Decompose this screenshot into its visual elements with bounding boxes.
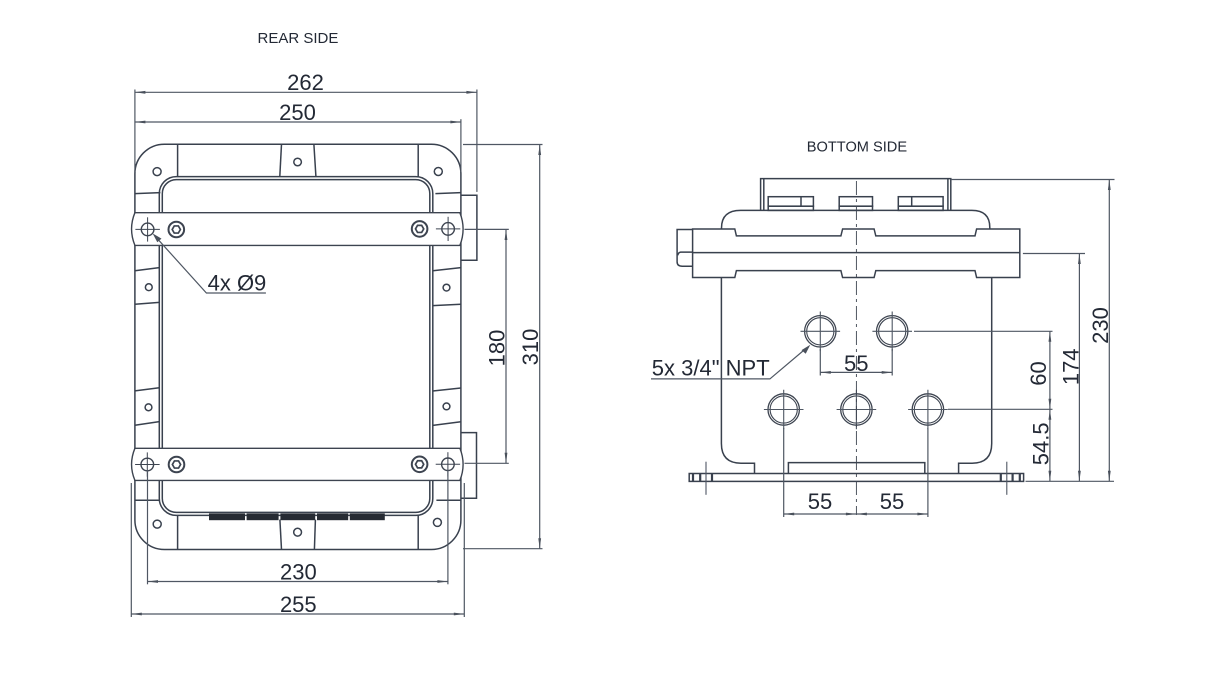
dim 55 bottom right	[856, 513, 928, 515]
left rail hole upper	[145, 284, 152, 291]
NPT hole bottom A	[768, 394, 799, 425]
NPT hole bottom B	[841, 394, 872, 425]
svg-text:230: 230	[280, 560, 317, 585]
dim 55 bottom left	[784, 513, 857, 515]
svg-text:250: 250	[279, 100, 316, 125]
svg-text:262: 262	[287, 70, 324, 95]
corner hole top-left	[153, 168, 161, 176]
plate center marks	[705, 462, 707, 495]
dim 250	[135, 121, 461, 123]
plate end ticks left	[692, 474, 694, 482]
svg-text:174: 174	[1058, 348, 1083, 385]
bolt hole top-left crosshair	[141, 223, 154, 236]
right rail hole lower	[443, 403, 450, 410]
bottom bracket bar	[132, 448, 464, 480]
flange mid line	[693, 252, 1020, 254]
corner hole top-right	[434, 168, 442, 176]
bolt hole bottom-right crosshair	[442, 458, 455, 471]
plate end ticks right	[1019, 474, 1021, 482]
svg-text:310: 310	[518, 329, 543, 366]
svg-text:5x 3/4" NPT: 5x 3/4" NPT	[652, 356, 770, 381]
svg-text:55: 55	[844, 351, 868, 376]
svg-text:255: 255	[280, 592, 317, 617]
NPT hole top A	[805, 316, 836, 347]
svg-text:230: 230	[1088, 307, 1113, 344]
bottom tab trapezoid	[280, 520, 282, 550]
corner separator bottom-right	[417, 515, 419, 549]
lid inner	[162, 180, 430, 513]
dim 310	[539, 145, 541, 549]
NPT hole bottom C	[912, 394, 943, 425]
dim 54.5	[1049, 409, 1051, 481]
dim 55 top	[820, 371, 892, 373]
dim 180	[505, 230, 507, 464]
leader NPT	[651, 348, 807, 379]
latch block left	[768, 197, 813, 207]
NPT hole top B	[877, 316, 908, 347]
top bracket bar	[132, 213, 464, 246]
svg-text:55: 55	[880, 489, 904, 514]
corner separator top-left	[177, 144, 179, 176]
dome top	[722, 210, 990, 229]
svg-text:60: 60	[1026, 361, 1051, 385]
washer bolt top-left	[169, 222, 185, 238]
latch block center	[839, 197, 872, 207]
washer bolt bottom-right	[412, 457, 428, 473]
knuckle frame	[761, 179, 951, 211]
svg-text:4x Ø9: 4x Ø9	[208, 270, 267, 295]
corner hole bottom-right	[433, 518, 441, 526]
corner hole bottom-left	[153, 520, 161, 528]
raised strip	[788, 463, 924, 474]
enclosure outline	[135, 144, 461, 549]
leader 4x d9	[156, 237, 266, 293]
corner separator bottom-left	[177, 515, 179, 549]
dim 230	[148, 581, 448, 583]
top tab hole	[294, 158, 302, 166]
left rail separators	[135, 193, 161, 194]
right rail separators	[435, 193, 461, 194]
left rail hole lower	[145, 404, 152, 411]
svg-text:54.5: 54.5	[1028, 422, 1053, 465]
left clip tab	[677, 230, 693, 267]
svg-text:55: 55	[808, 489, 832, 514]
svg-text:REAR SIDE: REAR SIDE	[258, 30, 339, 47]
washer bolt bottom-left	[169, 457, 185, 473]
hinge dark strip	[209, 513, 385, 520]
center marks	[801, 312, 841, 352]
mounting plate	[689, 474, 1023, 482]
dim 174	[1078, 254, 1080, 482]
dim 60	[1049, 331, 1051, 409]
centerline	[855, 181, 857, 515]
right rail hole upper	[443, 284, 450, 291]
dim 230 right	[1108, 180, 1110, 482]
upper right tab	[461, 195, 477, 260]
bolt hole top-right crosshair	[442, 223, 455, 236]
bottom tab hole	[294, 528, 302, 536]
washer bolt top-right	[412, 221, 428, 237]
body side walls	[721, 278, 754, 474]
dim 262	[135, 91, 477, 93]
svg-text:BOTTOM SIDE: BOTTOM SIDE	[807, 139, 908, 155]
flange band	[693, 229, 1020, 278]
lid outer	[159, 177, 433, 516]
lower right tab	[461, 433, 477, 499]
bolt hole bottom-left crosshair	[141, 458, 154, 471]
svg-text:180: 180	[484, 330, 509, 367]
corner separator top-right	[417, 144, 419, 176]
latch block right	[898, 197, 943, 207]
top tab trapezoid	[280, 144, 282, 176]
title REAR SIDE	[258, 30, 339, 47]
dim 255	[131, 613, 464, 615]
title BOTTOM SIDE	[807, 139, 908, 155]
